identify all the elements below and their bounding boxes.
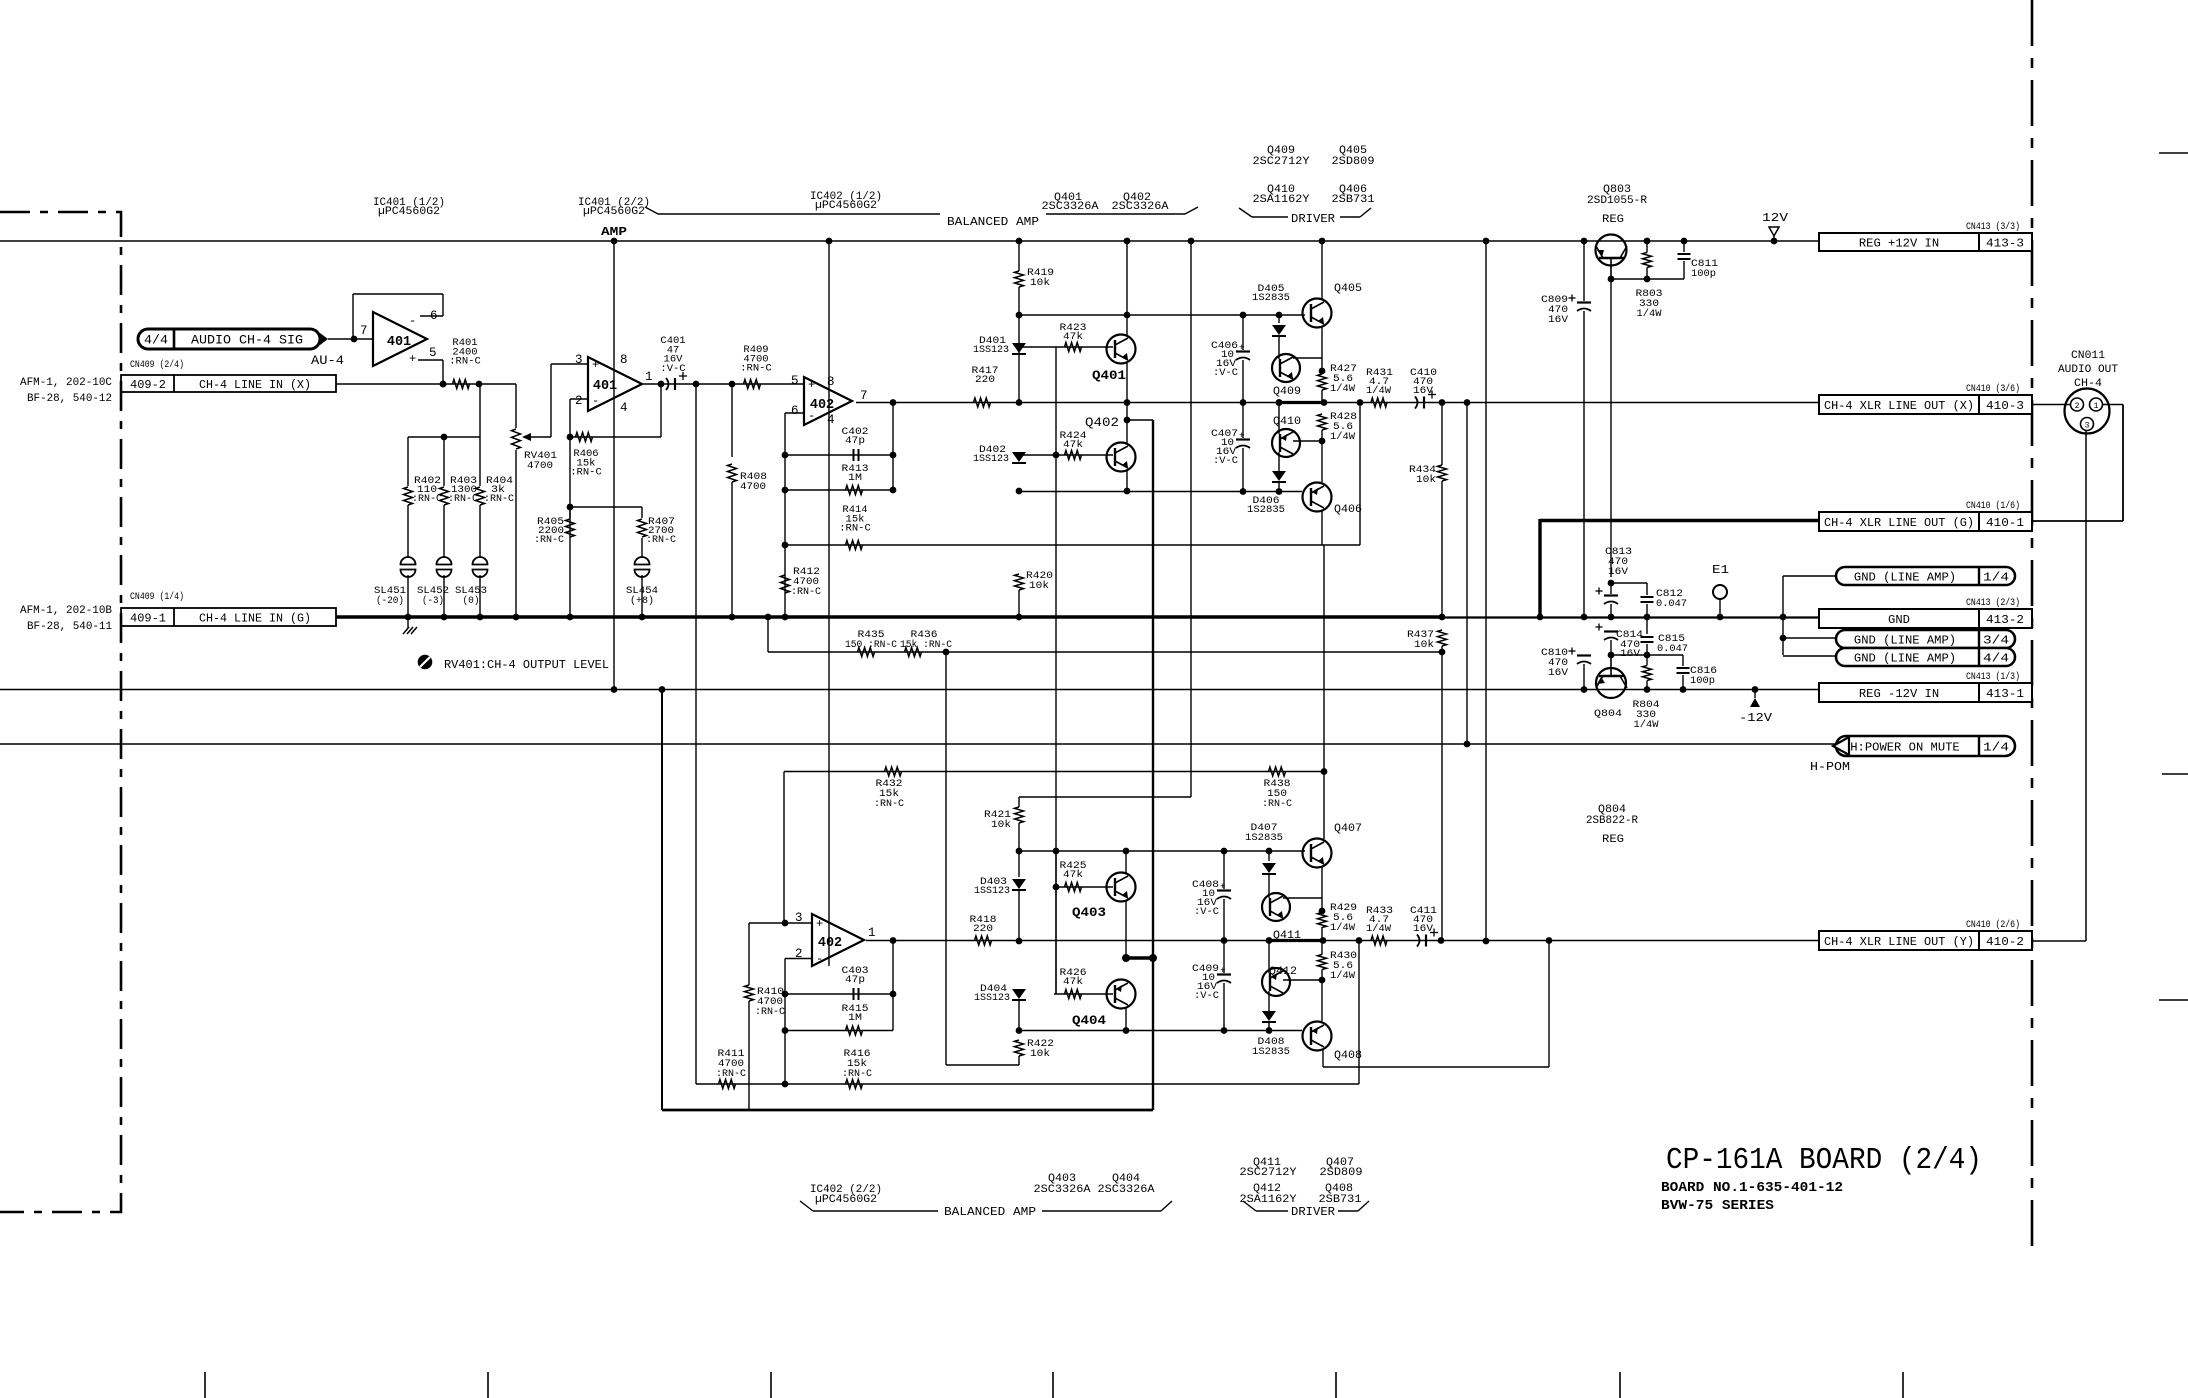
- svg-text:100p: 100p: [1690, 675, 1715, 687]
- connector box GND 413-2: [1819, 597, 2032, 628]
- svg-text:+: +: [1239, 431, 1244, 441]
- op-amp U1 IC401(2/2) 401: [575, 353, 653, 415]
- svg-text:16V: 16V: [1413, 385, 1434, 397]
- transistor Q804 REG: [1594, 655, 1627, 720]
- resistor R406 15k: [570, 433, 661, 479]
- wire R432/R438 net: [784, 771, 1324, 773]
- svg-text:2SC2712Y: 2SC2712Y: [1240, 1167, 1297, 1179]
- power -12V arrow: [1739, 686, 1772, 725]
- connector pill GND (LINE AMP) 1/4: [1780, 567, 2015, 655]
- wire R421 feed bus: [1188, 238, 1195, 797]
- wire R435/R436 net: [765, 614, 1442, 652]
- svg-text::RN-C: :RN-C: [874, 798, 904, 810]
- capacitor C406 10uF: [1211, 315, 1250, 403]
- svg-text:1/4W: 1/4W: [1366, 385, 1392, 397]
- label upper driver transistors: [1239, 145, 1375, 226]
- svg-text:CN011: CN011: [2071, 350, 2105, 362]
- svg-text::RN-C: :RN-C: [646, 534, 676, 546]
- svg-text:CN413 (1/3): CN413 (1/3): [1966, 671, 2020, 683]
- label CP-161A BOARD (2/4): [1661, 1143, 1982, 1214]
- svg-text:BF-28, 540-11: BF-28, 540-11: [27, 621, 112, 633]
- svg-text::RN-C: :RN-C: [448, 493, 478, 505]
- capacitor C411 470uF: [1410, 905, 1438, 947]
- svg-text:(+8): (+8): [630, 595, 654, 607]
- svg-text::RN-C: :RN-C: [484, 493, 514, 505]
- svg-text:4/4: 4/4: [144, 334, 168, 348]
- svg-text:Q407: Q407: [1334, 823, 1362, 835]
- svg-text::RN-C: :RN-C: [740, 363, 772, 375]
- svg-text:1/4W: 1/4W: [1634, 719, 1660, 731]
- wire lower base bias: [1053, 851, 1113, 994]
- connector pill GND (LINE AMP) 4/4: [1783, 648, 2015, 666]
- svg-text:DRIVER: DRIVER: [1291, 1206, 1335, 1219]
- svg-text:413-1: 413-1: [1986, 687, 2024, 701]
- transistor Q401: [1092, 238, 1136, 403]
- svg-text:+: +: [592, 358, 599, 372]
- svg-text:-: -: [592, 394, 599, 408]
- resistor R438 150: [1262, 767, 1327, 810]
- svg-text:Q410: Q410: [1273, 416, 1301, 428]
- svg-text:(-3): (-3): [422, 595, 444, 607]
- svg-text:CH-4 XLR LINE OUT (Y): CH-4 XLR LINE OUT (Y): [1824, 935, 1974, 949]
- svg-text:AFM-1, 202-10B: AFM-1, 202-10B: [20, 605, 112, 617]
- op-amp U1 IC401(1/2) 401: [360, 309, 438, 366]
- svg-text:47k: 47k: [1063, 869, 1083, 881]
- wire R406 feedback node: [660, 384, 662, 437]
- svg-text:409-1: 409-1: [130, 613, 166, 626]
- svg-text::RN-C: :RN-C: [1262, 798, 1292, 810]
- resistor R422 10k: [946, 1038, 1054, 1065]
- resistor R427 5.6: [1318, 363, 1358, 403]
- svg-text:1S2835: 1S2835: [1252, 1046, 1290, 1058]
- svg-text:2SB731: 2SB731: [1332, 194, 1375, 206]
- connector pill 4/4 AUDIO CH-4 SIG: [138, 329, 328, 349]
- svg-text:-: -: [816, 952, 823, 966]
- svg-text:+: +: [1220, 882, 1225, 892]
- svg-text:100p: 100p: [1691, 268, 1716, 280]
- svg-text:1/4W: 1/4W: [1330, 970, 1356, 982]
- capacitor C410 470uF: [1410, 367, 1437, 409]
- svg-text:2SC3326A: 2SC3326A: [1042, 201, 1099, 213]
- svg-text:402: 402: [818, 936, 842, 951]
- svg-text:220: 220: [973, 923, 993, 935]
- capacitor C814 470uF: [1596, 624, 1684, 661]
- diode D404 1SS123: [974, 983, 1026, 1034]
- connector pill GND (LINE AMP) 3/4: [1783, 630, 2015, 648]
- transistor Q403: [1072, 851, 1136, 958]
- diode D403 1SS123: [974, 851, 1026, 944]
- wire T4 feedback vertical: [890, 937, 897, 1030]
- resistor R408 4700: [728, 384, 768, 620]
- transistor Q409: [1272, 354, 1325, 398]
- wire feedback vertical: [890, 403, 897, 494]
- resistor R432 15k: [784, 767, 904, 923]
- svg-text:1/4W: 1/4W: [1366, 923, 1392, 935]
- svg-text:2: 2: [575, 394, 583, 408]
- wire balanced amp output X: [856, 399, 1820, 406]
- svg-text:1SS123: 1SS123: [973, 453, 1009, 465]
- transistor Q406: [1303, 483, 1363, 546]
- svg-text::RN-C: :RN-C: [791, 586, 821, 598]
- svg-text:16V: 16V: [1608, 566, 1629, 578]
- svg-text:413-3: 413-3: [1986, 237, 2024, 251]
- svg-text:410-1: 410-1: [1986, 516, 2024, 530]
- svg-text:4/4: 4/4: [1983, 652, 2009, 666]
- wire Q408 emitter out: [1323, 941, 1549, 1068]
- svg-text:AUDIO OUT: AUDIO OUT: [2058, 364, 2118, 376]
- wire thick bus bottom: [659, 686, 1153, 1110]
- wire upper inner return: [1019, 488, 1302, 495]
- svg-text:409-2: 409-2: [130, 379, 166, 392]
- capacitor C811 100p: [1678, 238, 1719, 280]
- svg-text:(-20): (-20): [376, 595, 404, 607]
- svg-text:Q411: Q411: [1273, 930, 1301, 942]
- svg-text:E1: E1: [1712, 564, 1729, 577]
- svg-text:410-2: 410-2: [1986, 935, 2024, 949]
- diode D401 1SS123: [973, 312, 1026, 403]
- wire long bus 829: [826, 238, 833, 966]
- svg-text:CH-4: CH-4: [2074, 378, 2102, 390]
- svg-text::V-C: :V-C: [1213, 367, 1238, 379]
- svg-text:µPC4560G2: µPC4560G2: [815, 200, 877, 212]
- wire T1 feedback loop: [353, 294, 446, 387]
- label RV401 output level note: [419, 656, 610, 673]
- transistor Q410: [1272, 399, 1322, 471]
- svg-text:2SD1055-R: 2SD1055-R: [1587, 195, 1647, 207]
- wire XLR pin2 to OUT X: [2032, 404, 2070, 406]
- svg-text:10k: 10k: [991, 819, 1011, 831]
- capacitor C401 47uF: [660, 335, 687, 390]
- svg-text:8: 8: [827, 375, 835, 389]
- connector CN011 AUDIO OUT CH-4 XLR: [2058, 350, 2118, 434]
- svg-text:CN410 (2/6): CN410 (2/6): [1966, 919, 2020, 931]
- svg-text:AUDIO CH-4 SIG: AUDIO CH-4 SIG: [191, 334, 303, 348]
- resistor R431 4.7: [1366, 367, 1393, 407]
- transistor Q411: [1262, 893, 1325, 942]
- svg-text:10k: 10k: [1030, 277, 1050, 289]
- svg-text:REG: REG: [1602, 834, 1624, 846]
- wire R405/R407 bias: [570, 506, 642, 508]
- svg-text:+: +: [816, 917, 823, 931]
- connector box CH-4 XLR LINE OUT (X) 410-3: [1819, 383, 2032, 414]
- svg-text:µPC4560G2: µPC4560G2: [583, 206, 645, 218]
- connector pill H:POWER ON MUTE 1/4: [1810, 736, 2015, 774]
- svg-text::RN-C: :RN-C: [716, 1068, 746, 1080]
- wire bias top upper: [1019, 312, 1305, 319]
- resistor R804 330: [1633, 655, 1660, 731]
- svg-text:REG: REG: [1602, 214, 1624, 226]
- svg-text:GND: GND: [1888, 613, 1910, 627]
- svg-text:16V: 16V: [1413, 923, 1434, 935]
- svg-text::V-C: :V-C: [1194, 990, 1219, 1002]
- svg-text:4: 4: [620, 401, 628, 415]
- svg-text:DRIVER: DRIVER: [1291, 213, 1335, 226]
- resistor R437 10k: [1407, 629, 1447, 941]
- svg-text:10k: 10k: [1416, 474, 1436, 486]
- svg-text:H:POWER ON MUTE: H:POWER ON MUTE: [1850, 741, 1960, 755]
- svg-text:Q406: Q406: [1334, 504, 1362, 516]
- transistor Q402: [1085, 403, 1136, 495]
- svg-text:CN409 (2/4): CN409 (2/4): [130, 359, 184, 371]
- resistor R428 5.6: [1318, 411, 1358, 482]
- svg-text:Q404: Q404: [1072, 1014, 1107, 1028]
- svg-text:2SC3326A: 2SC3326A: [1098, 1184, 1155, 1196]
- svg-text:RV401:CH-4 OUTPUT LEVEL: RV401:CH-4 OUTPUT LEVEL: [444, 658, 609, 672]
- svg-text:Q409: Q409: [1273, 386, 1301, 398]
- svg-text:47k: 47k: [1063, 331, 1083, 343]
- svg-text:-12V: -12V: [1739, 712, 1772, 725]
- wire Q406 emitter to lower: [1323, 545, 1325, 839]
- svg-text:220: 220: [975, 374, 995, 386]
- resistor R419 10k: [1015, 238, 1055, 315]
- capacitor C809 470uF: [1541, 238, 1591, 621]
- svg-text::RN-C: :RN-C: [449, 356, 481, 368]
- switch SL452 (-3): [417, 557, 452, 620]
- resistor R405 2200: [534, 507, 575, 546]
- svg-text:REG +12V IN: REG +12V IN: [1859, 237, 1939, 251]
- capacitor C812 0.047: [1641, 583, 1688, 620]
- svg-text:413-2: 413-2: [1986, 613, 2024, 627]
- svg-text:16V: 16V: [1548, 667, 1569, 679]
- transistor Q408: [1303, 1022, 1363, 1063]
- resistor R430 5.6: [1318, 941, 1358, 1022]
- svg-text:2SA1162Y: 2SA1162Y: [1253, 194, 1310, 206]
- svg-text:GND (LINE AMP): GND (LINE AMP): [1854, 571, 1956, 585]
- resistor R421 10k: [984, 797, 1024, 851]
- diode D408 1S2835: [1252, 1011, 1290, 1058]
- svg-text:Q403: Q403: [1072, 906, 1106, 920]
- svg-text:CN410 (3/6): CN410 (3/6): [1966, 383, 2020, 395]
- svg-text:4700: 4700: [740, 481, 766, 493]
- svg-text:µPC4560G2: µPC4560G2: [815, 1194, 877, 1206]
- svg-text:1/4W: 1/4W: [1330, 383, 1356, 395]
- label Q401 Q402 2SC3326A: [1042, 192, 1169, 213]
- svg-text:7: 7: [360, 324, 368, 338]
- resistor R425 47k: [1060, 860, 1087, 892]
- svg-text:1S2835: 1S2835: [1245, 832, 1283, 844]
- svg-text:CP-161A BOARD (2/4): CP-161A BOARD (2/4): [1666, 1143, 1982, 1178]
- svg-text:1/4W: 1/4W: [1330, 431, 1356, 443]
- resistor R410 4700: [745, 923, 786, 1110]
- svg-text:1/4: 1/4: [1983, 571, 2009, 585]
- resistor R415 1M: [785, 1003, 893, 1035]
- svg-text:2SC3326A: 2SC3326A: [1034, 1184, 1091, 1196]
- svg-text::RN-C: :RN-C: [570, 467, 602, 479]
- svg-text:1M: 1M: [848, 1012, 862, 1024]
- resistor R412 4700: [781, 566, 822, 598]
- svg-text::RN-C: :RN-C: [839, 523, 871, 535]
- capacitor C813 470uF: [1596, 546, 1648, 620]
- svg-text:8: 8: [620, 353, 628, 367]
- transistor Q405: [1303, 238, 1363, 371]
- svg-text:1SS123: 1SS123: [973, 344, 1009, 356]
- svg-text:CN413 (3/3): CN413 (3/3): [1966, 221, 2020, 233]
- wire Q803 base net: [1608, 276, 1684, 283]
- resistor R426 47k: [1060, 967, 1087, 999]
- diode D407 1S2835: [1245, 822, 1283, 898]
- svg-text:+: +: [808, 378, 815, 392]
- svg-text:µPC4560G2: µPC4560G2: [378, 206, 440, 218]
- svg-text:1S2835: 1S2835: [1247, 504, 1285, 516]
- svg-text:BF-28, 540-12: BF-28, 540-12: [27, 393, 112, 405]
- capacitor C409 10uF: [1192, 941, 1231, 1031]
- svg-text:BALANCED AMP: BALANCED AMP: [947, 216, 1039, 229]
- wire RV401 wiper to pin3: [550, 364, 552, 437]
- resistor R407 2700: [638, 507, 677, 558]
- resistor R429 5.6: [1318, 902, 1358, 941]
- op-amp U2 IC402(2/2) 402: [795, 911, 876, 966]
- label IC402 (1/2) BALANCED AMP: [645, 191, 1198, 229]
- resistor R435 150: [845, 629, 897, 657]
- svg-text:Q804: Q804: [1594, 708, 1622, 720]
- resistor R434 10k: [1409, 403, 1447, 621]
- label CN409 (2/4): [130, 359, 184, 371]
- svg-text:-: -: [409, 314, 416, 328]
- svg-text:2SB822-R: 2SB822-R: [1586, 815, 1638, 827]
- wire H:POWER ON MUTE line: [0, 743, 1836, 745]
- capacitor C403 47p: [785, 965, 893, 1000]
- svg-text:2SC2712Y: 2SC2712Y: [1253, 156, 1310, 168]
- transistor Q404: [1072, 980, 1136, 1034]
- transistor Q412: [1262, 937, 1322, 1011]
- wire T3 pin6 node: [782, 413, 804, 620]
- svg-text:+: +: [409, 352, 416, 366]
- capacitor C810 470uF: [1541, 647, 1591, 693]
- terminal E1: [1712, 564, 1729, 620]
- svg-text:H-POM: H-POM: [1810, 761, 1850, 774]
- svg-text:REG -12V IN: REG -12V IN: [1859, 687, 1939, 701]
- svg-text:47p: 47p: [845, 974, 865, 986]
- svg-text:+: +: [1220, 966, 1225, 976]
- svg-text:410-3: 410-3: [1986, 399, 2024, 413]
- svg-text:CN413 (2/3): CN413 (2/3): [1966, 597, 2020, 609]
- capacitor C407 10uF: [1211, 403, 1250, 492]
- svg-text:47k: 47k: [1063, 439, 1083, 451]
- capacitor C402 47p: [785, 426, 893, 461]
- svg-text:1: 1: [2094, 402, 2099, 411]
- label IC401 (2/2) AMP: [578, 197, 650, 239]
- svg-text:Q408: Q408: [1334, 1050, 1362, 1062]
- label lower driver transistors: [1240, 1157, 1370, 1219]
- label Q403 Q404 2SC3326A lower: [1034, 1173, 1155, 1196]
- svg-text:1S2835: 1S2835: [1252, 292, 1290, 304]
- wire +12V rail: [0, 240, 1820, 242]
- svg-text:1SS123: 1SS123: [974, 992, 1010, 1004]
- svg-text:47k: 47k: [1063, 976, 1083, 988]
- op-amp U2 IC402(1/2) 402: [791, 374, 868, 427]
- wire lower inner return: [1019, 1027, 1302, 1034]
- resistor R803 330: [1636, 238, 1663, 320]
- svg-text:10k: 10k: [1030, 1048, 1050, 1060]
- resistor R414 15k: [785, 403, 1360, 550]
- svg-text::V-C: :V-C: [660, 363, 685, 375]
- svg-text:2SC3326A: 2SC3326A: [1112, 201, 1169, 213]
- wire T2 output: [642, 381, 804, 388]
- wire thick gnd jumper: [1122, 954, 1157, 962]
- svg-text:AMP: AMP: [601, 225, 627, 239]
- wire balanced amp output Y: [866, 937, 1819, 944]
- svg-text:Q405: Q405: [1334, 283, 1362, 295]
- resistor R413 1M: [785, 463, 893, 495]
- wire signal to lower amp: [695, 384, 697, 1084]
- svg-text:47p: 47p: [845, 435, 865, 447]
- connector box CH-4 XLR LINE OUT (G) 410-1: [1537, 500, 2032, 620]
- wire CH-4 LINE IN (X): [336, 381, 516, 388]
- svg-text:2SD809: 2SD809: [1332, 156, 1375, 168]
- svg-text:3: 3: [2085, 422, 2090, 431]
- svg-text:4700: 4700: [527, 460, 553, 472]
- svg-text:401: 401: [387, 335, 411, 350]
- capacitor C815 0.047: [1641, 617, 1689, 658]
- connector box REG -12V IN 413-1: [1819, 671, 2032, 702]
- svg-text:1/4W: 1/4W: [1637, 308, 1663, 320]
- wire R421 top net: [1019, 796, 1191, 798]
- svg-text:2: 2: [2075, 402, 2080, 411]
- svg-text:CH-4 LINE IN (X): CH-4 LINE IN (X): [199, 379, 311, 392]
- wire T2 pin2 node: [567, 399, 588, 620]
- svg-text:10k: 10k: [1414, 639, 1434, 651]
- svg-text:GND (LINE AMP): GND (LINE AMP): [1854, 652, 1956, 666]
- svg-text:BOARD NO.1-635-401-12: BOARD NO.1-635-401-12: [1661, 1180, 1843, 1196]
- label IC402 (2/2) BALANCED AMP lower: [800, 1184, 1172, 1219]
- resistor R423 47k: [1060, 322, 1087, 352]
- svg-text:0.047: 0.047: [1657, 643, 1688, 655]
- svg-text:+: +: [1239, 343, 1244, 353]
- resistor R418 220: [970, 914, 997, 945]
- resistor R416 15k: [696, 941, 1359, 1089]
- resistor R433 4.7: [1366, 905, 1393, 945]
- diode D405 1S2835: [1252, 283, 1290, 359]
- node divider top: [408, 384, 480, 440]
- svg-text:Q412: Q412: [1269, 966, 1297, 978]
- svg-text:1M: 1M: [848, 472, 862, 484]
- ground: [403, 617, 417, 634]
- connector box 409-2 CH-4 LINE IN (X): [20, 375, 336, 405]
- svg-text:3/4: 3/4: [1983, 634, 2009, 648]
- svg-text:AFM-1, 202-10C: AFM-1, 202-10C: [20, 377, 112, 389]
- wire REG -12V rail: [0, 689, 1819, 691]
- wire lower bias drive: [0, 0, 1, 1]
- label IC401 (1/2): [373, 197, 445, 218]
- svg-text:Q402: Q402: [1085, 416, 1119, 430]
- wire XLR pin1 to OUT G: [2032, 405, 2123, 522]
- resistor R409 4700: [740, 344, 772, 389]
- svg-text:2SD809: 2SD809: [1320, 1167, 1363, 1179]
- wire IC401 power AMP: [611, 238, 618, 693]
- svg-text:16V: 16V: [1548, 314, 1569, 326]
- svg-text::RN-C: :RN-C: [534, 534, 564, 546]
- svg-text::RN-C: :RN-C: [755, 1006, 785, 1018]
- connector box 409-1 CH-4 LINE IN (G): [20, 605, 336, 633]
- wire XLR pin3 to OUT Y: [2032, 430, 2086, 941]
- svg-text:CN409 (1/4): CN409 (1/4): [130, 591, 184, 603]
- svg-text:(0): (0): [463, 595, 480, 607]
- svg-text:CH-4 XLR LINE OUT (X): CH-4 XLR LINE OUT (X): [1824, 399, 1974, 413]
- connector box CH-4 XLR LINE OUT (Y) 410-2: [1819, 919, 2032, 950]
- resistor R420 10k: [1015, 488, 1054, 621]
- diode D402 1SS123: [973, 444, 1026, 465]
- resistor R417 220: [972, 365, 999, 407]
- switch SL453 (0): [455, 557, 488, 620]
- capacitor C816 100p: [1677, 655, 1718, 693]
- svg-text:150 :RN-C: 150 :RN-C: [845, 639, 897, 651]
- svg-text:4: 4: [827, 413, 835, 427]
- resistor R403 1300: [440, 437, 479, 558]
- wire base bias upper: [1019, 347, 1113, 994]
- power 12V arrow: [1762, 212, 1788, 244]
- svg-text::V-C: :V-C: [1194, 906, 1219, 918]
- svg-text:3: 3: [575, 353, 583, 367]
